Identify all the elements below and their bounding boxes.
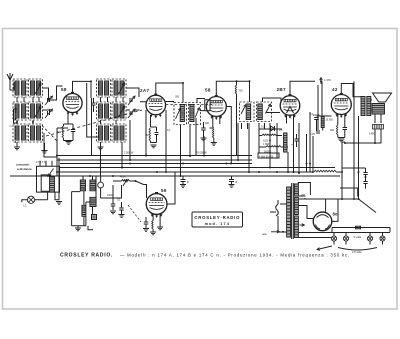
diode detector symbol: [271, 126, 275, 131]
wire RF block output to tube V1 grid: [50, 86, 63, 100]
tube V4 2B7 (detector/AVC/1st AF): [280, 96, 300, 116]
coil L10a: [114, 104, 118, 118]
heater wire rail y232: [298, 232, 390, 234]
grid wire into V5: [317, 115, 332, 117]
coil L12a: [114, 126, 118, 140]
bus wire y155.5: [57, 155, 252, 157]
resistor R6 AVC filter: [266, 146, 281, 148]
svg-text:484: 484: [330, 129, 335, 132]
wire drop x358: [358, 116, 360, 199]
wire x44 RF row3 to bus: [44, 133, 57, 157]
wire antenna lead: [10, 82, 14, 90]
rectifier inner top arc: [317, 215, 329, 218]
trimmer arrow on L10: [119, 106, 125, 117]
wire drop x204: [203, 136, 205, 156]
second gang dashed segment: [42, 126, 57, 142]
wire drop x209 V3 cathode region: [210, 127, 213, 129]
wire screen drop x236.5: [236, 81, 238, 85]
svg-text:2 T 4 T 6: 2 T 4 T 6: [36, 161, 46, 164]
speaker voice coil box hatched: [372, 104, 385, 115]
wire drop x305 from rail y199: [304, 198, 306, 199]
svg-text:4000: 4000: [120, 175, 126, 179]
resistor element in remote box: [50, 177, 55, 192]
coil L10b: [120, 104, 124, 118]
wire drop x86.7 from V1 plate: [87, 83, 98, 137]
dial lamp L1: [27, 196, 34, 203]
RF coil box L2 (dashed): [29, 79, 43, 97]
wire drop x264 IF can stub: [260, 123, 265, 129]
ground mark below remote box: [56, 202, 62, 205]
wire drop x320: [319, 80, 321, 82]
chassis arrow bottom: [317, 246, 332, 250]
mains switch S2: [276, 204, 279, 216]
ganged tuning dashed link: [46, 110, 142, 136]
wire drop x354: [353, 81, 355, 199]
wire lamp stubs from rail: [334, 232, 383, 236]
tuning capacitor C1 (variable): [48, 98, 50, 102]
wire drop x277: [276, 123, 278, 158]
wire drop x270 T2b: [269, 123, 271, 168]
svg-text:0,25: 0,25: [310, 133, 315, 136]
dashed earth lead: [15, 126, 17, 143]
coil L7b: [105, 81, 109, 95]
wire drop x238: [237, 123, 239, 160]
svg-text:2A7: 2A7: [140, 88, 149, 93]
bus wire y176 long: [10, 175, 340, 177]
capacitor C8 detector: [295, 139, 299, 141]
svg-text:600: 600: [205, 122, 210, 125]
junction node under L4: [32, 121, 34, 123]
resistor R7 vertical hatched: [284, 133, 288, 152]
resistor R9 V5 cathode: [336, 125, 337, 135]
wire V1 grid cap loop to oscillator coils: [73, 81, 92, 98]
wire drop x190: [189, 125, 191, 156]
wire T1 to V3 grid: [183, 83, 205, 111]
capacitor C17 between V1 and osc block: [92, 103, 96, 105]
svg-text:25.000: 25.000: [326, 119, 334, 122]
junction dots row on buses: [56, 155, 58, 157]
RF coil box L5 (dashed): [13, 124, 27, 142]
wire V4 legs down: [287, 116, 294, 174]
wire lamp tails: [334, 241, 383, 244]
small resistor box on heater rail: [356, 226, 361, 229]
wire transformer bottom rail: [298, 237, 331, 239]
wire drop x299: [298, 123, 300, 173]
pilot lamp P4: [380, 236, 385, 241]
svg-text:2 500 W: 2 500 W: [124, 152, 134, 155]
grid cap shield of V3: [205, 100, 210, 111]
wire drop x342 from V5 to lamps rail: [342, 142, 345, 199]
svg-text:+: +: [291, 143, 293, 147]
osc coil box L10 (dashed): [112, 102, 126, 120]
wire drop x246 top loop to bus: [246, 100, 248, 102]
wire drop x68 V1 cathode to bus: [57, 127, 68, 129]
wire primary to switch: [278, 204, 287, 232]
wire drops from RF section to buses: [61, 132, 63, 134]
wire osc block to tube V2: [126, 88, 140, 110]
power transformer secondary 2 (HT): [294, 198, 298, 215]
svg-text:1 MW: 1 MW: [263, 143, 270, 146]
pilot lamp P2: [343, 236, 348, 241]
small box element: [92, 215, 97, 220]
coil T2b: [258, 104, 263, 120]
svg-text:5 volts: 5 volts: [354, 235, 362, 239]
wire V6 plate right: [167, 172, 175, 204]
ground under audio coils: [75, 228, 81, 231]
svg-text:1M: 1M: [145, 134, 148, 137]
wire osc coils to ground: [100, 142, 102, 147]
audio coupling coil assembly left of V6: coil A1: [80, 180, 85, 191]
tube V7 80 (rectifier): [313, 212, 332, 231]
ground below RF coils: [14, 147, 20, 150]
node RF output: [49, 109, 51, 111]
wire loop around audio coils: [72, 192, 86, 226]
remote control box: [37, 166, 60, 192]
coil L6a: [31, 126, 35, 140]
junction dots on top rails: [236, 80, 238, 82]
oscillator tuning capacitor C5: [130, 111, 132, 115]
trimmer capacitor arrow on L4: [35, 106, 41, 117]
wire drop x226 V3: [226, 107, 231, 164]
svg-text:260: 260: [301, 194, 306, 197]
wire horizontal y129: [259, 128, 282, 130]
svg-text:1.470: 1.470: [324, 78, 331, 82]
pilot lamp P3: [367, 236, 372, 241]
grid cap marks on tube tops: [71, 92, 74, 94]
tube V5 42 (output): [331, 95, 351, 115]
svg-text:20000: 20000: [313, 114, 320, 117]
wire audio coil stubs to bus: [83, 176, 96, 197]
resistor R3 screen dropper: [235, 85, 236, 94]
svg-text:CROSLEY·RADIO: CROSLEY·RADIO: [194, 215, 240, 220]
resistor R8 grid leak hatched: [321, 117, 324, 128]
coil C vertical: [82, 205, 86, 216]
capacitor C13: [119, 208, 124, 210]
wire remote box bottom drop: [55, 158, 59, 200]
RF coil box L1 (dashed): [13, 79, 27, 97]
ground x160 under V6 leg: [157, 227, 163, 230]
volume potentiometer R11: [122, 180, 130, 182]
capacitor C10 V5 bypass: [343, 128, 348, 130]
wire transformer to speaker: [371, 100, 372, 110]
coil B: [90, 197, 96, 206]
capacitor C11 V6: [144, 222, 149, 224]
power transformer core: [292, 183, 294, 239]
coil L9b: [105, 104, 109, 118]
svg-text:42: 42: [332, 87, 338, 92]
wire V2 plate to T1 can A: [140, 101, 174, 103]
wire drop x313 to resistor R10: [312, 136, 314, 172]
wire coil column joins: [17, 97, 39, 124]
ground arrow x44: [42, 151, 48, 154]
coil T1 primary: [180, 105, 184, 122]
wire V2 cathode legs down: [151, 115, 157, 132]
pilot lamp P1: [331, 236, 336, 241]
field coil hatched: [373, 125, 384, 130]
svg-text:0,1: 0,1: [167, 129, 171, 132]
wire drop x62 V1 bias to bus: [56, 128, 58, 156]
wire drop x209: [209, 115, 211, 117]
wire drop x322: [321, 81, 323, 116]
coil L4a: [31, 104, 35, 118]
svg-text:1400: 1400: [369, 132, 375, 136]
wire horizontal y199 right section: [299, 198, 359, 200]
electrolytic capacitor C14: [181, 180, 186, 182]
heater wire rail y227.5: [332, 228, 390, 233]
wire drop x122 osc block to bus: [121, 142, 123, 168]
antenna: [7, 73, 13, 80]
svg-text:m: m: [10, 125, 12, 128]
wire field coil drops: [375, 114, 381, 123]
junction dots top rails: [165, 155, 167, 157]
capacitor C9 coupling: [314, 118, 319, 120]
wire drop x318 B-plus feed: [317, 85, 319, 130]
wire lamp to box: [35, 192, 48, 200]
wire diagonal to voice coil: [359, 199, 377, 213]
capacitor C19 tone lower: [363, 182, 367, 184]
resistor R2 under V2 1M: [149, 128, 150, 141]
wire drop x146 tube V2 to bus: [145, 110, 147, 155]
arrow into rectifier: [300, 224, 305, 226]
coil L7a: [99, 81, 103, 95]
trimmer arrow T2b: [266, 104, 271, 114]
svg-text:2,5 volts: 2,5 volts: [352, 250, 362, 254]
power transformer secondary 3 (heaters): [294, 216, 298, 238]
tube V2 2A7 (converter): [146, 95, 166, 115]
wire drop x364 output transformer return: [362, 115, 364, 117]
wire rectifier anode from rail: [325, 199, 327, 213]
svg-text:350: 350: [175, 96, 180, 99]
svg-text:700: 700: [239, 90, 244, 93]
wire secondary1 top loop: [298, 183, 310, 196]
wire drop x196 under T1: [195, 118, 197, 156]
wire V5 top loop to output transformer: [341, 84, 361, 97]
label box CROSLEY RADIO mod 174: [192, 212, 243, 227]
mains arrow rete: [271, 231, 280, 233]
capacitor C16 at x318: [316, 131, 320, 133]
junction node under L3: [16, 121, 18, 123]
svg-text:rete: rete: [262, 232, 267, 236]
rectifier filament V right: [325, 225, 330, 230]
wire phono leads: [100, 176, 102, 198]
osc coil box L8 (dashed): [112, 79, 126, 97]
trimmer capacitor arrow on L2: [35, 83, 41, 94]
wire drop x90: [89, 96, 91, 98]
wire drop x166: [165, 110, 167, 172]
coil L5b: [22, 126, 26, 140]
wire tone caps branch: [342, 167, 366, 169]
trimmer arrow T1a: [176, 108, 181, 119]
coil L11b: [105, 126, 109, 140]
coil L8a: [114, 81, 118, 95]
svg-text:— Modelli : n 174 A, 174 B: — Modelli : n 174 A, 174 B e 174 C n. - …: [120, 253, 350, 258]
power transformer primary winding: [287, 187, 291, 237]
coil L3a: [15, 104, 19, 118]
wire V6 grid from pot: [144, 185, 147, 205]
wire V2 bias bottom join: [151, 141, 157, 143]
coil L2a: [31, 81, 35, 95]
osc coil box L11 (dashed): [97, 124, 111, 142]
wire drop x288 to bus: [287, 152, 289, 173]
dashed shield line through IF1: [166, 104, 212, 106]
capacitor C3 cathode bypass: [71, 130, 76, 132]
IF transformer T2 can B (dashed): [257, 102, 272, 122]
curly bracket 2,5 volts: [338, 248, 377, 251]
coil T1 secondary: [190, 105, 194, 122]
wire cathode join to ground: [338, 137, 345, 139]
capacitor C7 V3 bypass: [201, 128, 206, 130]
ground under V2 bias: [151, 145, 157, 148]
coil L6b: [37, 126, 41, 140]
RF coil box L3 (dashed): [13, 102, 27, 120]
wire horizontal y143 field coil return: [345, 142, 375, 144]
oscillator tuning capacitor C4: [130, 98, 132, 102]
IF transformer T1 can A (dashed): [174, 103, 187, 125]
ground under V6: [150, 232, 156, 235]
wire rectifier output up: [332, 199, 338, 221]
coil L1b: [22, 81, 26, 95]
IF transformer T2 can A (dashed): [240, 102, 255, 122]
capacitor C18 tone upper: [363, 173, 367, 175]
earth lead bracket at left edge: [14, 109, 18, 123]
trimmer arrow T2a: [241, 105, 246, 115]
electrolytic capacitor C15: [229, 180, 234, 182]
osc coil box L12 (dashed): [112, 124, 126, 142]
coil L4b: [37, 104, 41, 118]
wire secondary1 bottom: [298, 195, 305, 197]
bus wire y163.5: [60, 163, 252, 165]
tuning capacitor C2 (variable): [48, 111, 50, 115]
bus wire y172: [57, 171, 313, 173]
dashed mechanical link volume: [128, 205, 141, 222]
output transformer T3 primary: [361, 97, 365, 116]
diode plates inside V4: [287, 107, 294, 114]
wire V5 legs: [338, 114, 345, 126]
coil L3b: [22, 104, 26, 118]
wire horizontal y134 speaker return: [345, 134, 381, 143]
wire V4 top loop: [290, 81, 315, 95]
svg-text:4 MW 50 000: 4 MW 50 000: [259, 156, 274, 159]
wire rectifier plate to HT secondary: [298, 206, 313, 219]
wire drop x130: [129, 120, 131, 160]
svg-text:56: 56: [161, 188, 167, 193]
coil L8b: [120, 81, 124, 95]
resistor R1 cathode bias 300: [62, 126, 63, 138]
coil A2: [90, 180, 96, 191]
wire field coil to bus: [375, 129, 381, 143]
inner box in remote control: [41, 175, 51, 191]
trimmer arrow T1b: [195, 108, 199, 118]
wire drop x241 IF can stub: [241, 123, 243, 129]
output transformer T3 secondary: [367, 97, 371, 116]
wire vertical drop x259: [258, 123, 260, 153]
wire drop x180 T1 to bus: [180, 125, 182, 176]
node B+ arrow marker 1.470: [320, 78, 322, 85]
IF transformer T1 can B (dashed): [189, 103, 201, 125]
capacitor C12 grid: [111, 204, 116, 206]
wire speaker link y188: [340, 188, 358, 197]
resistor R10 hum filter in bus: [314, 170, 336, 172]
wire long drop x91 to bus: [91, 98, 93, 156]
svg-text:L1: L1: [24, 204, 28, 208]
wire drop x258 under T2a: [247, 123, 249, 129]
resistor R4 V3 cathode: [212, 127, 213, 138]
wire network box: [258, 153, 279, 158]
power transformer secondary 1 (rectifier filament): [294, 184, 298, 196]
wire left column to ground: [16, 142, 18, 147]
bus junction dots: [129, 159, 131, 161]
resistor R12 V6 cathode: [152, 221, 153, 229]
bus wire y160: [57, 159, 252, 161]
capacitor C6 under V2: [155, 133, 159, 135]
coil L1a: [15, 81, 19, 95]
RF coil box L4 (dashed): [29, 102, 43, 120]
tube V6 56 (1st audio): [146, 194, 167, 215]
svg-text:58: 58: [61, 87, 67, 92]
ground under C14: [180, 185, 186, 188]
wire y196 phono to pot: [101, 185, 122, 198]
wire vertical drop x249: [248, 123, 250, 173]
wire remote box top stubs to bus: [40, 161, 52, 167]
osc coil box L9 (dashed): [97, 102, 111, 120]
svg-text:8o: 8o: [333, 212, 338, 217]
svg-text:25 000 W: 25 000 W: [196, 152, 207, 155]
tube V1 58 (RF amplifier): [63, 93, 82, 112]
tube V3 58 (IF amplifier): [206, 97, 226, 117]
phono jack circle: [98, 182, 104, 188]
wire pot connections: [113, 180, 136, 182]
speaker horn: [373, 93, 392, 102]
rectifier filament V left: [316, 225, 321, 230]
osc coil box L7 (dashed): [97, 79, 111, 97]
coil L2b: [37, 81, 41, 95]
bus wire y167.5: [60, 167, 335, 169]
ground under C15: [229, 185, 235, 188]
wire right of RF block: [43, 88, 49, 110]
svg-text:58: 58: [205, 88, 211, 93]
wire drop x57 from RF cathode area: [56, 140, 58, 176]
wire V2 grid cap loop to IF transformer 1: [156, 83, 183, 95]
coil L12b: [120, 126, 124, 140]
RF coil box L6 (dashed): [29, 124, 43, 142]
ground below osc coils: [98, 147, 104, 150]
wire osc column joins: [101, 97, 124, 124]
wire T2 to V4 grid: [263, 98, 282, 113]
wire V1 cathode down: [64, 113, 74, 124]
coil L9a: [99, 104, 103, 118]
wire V6 cathode down: [153, 215, 160, 227]
wire V3 cathode down: [213, 116, 220, 127]
svg-text:mod. 174: mod. 174: [205, 222, 230, 226]
wire bottom drop of audio assembly: [88, 226, 93, 230]
wire audio coils inner joins: [84, 191, 93, 215]
coil T2a: [246, 104, 251, 120]
wiper arrow in remote box: [48, 169, 54, 177]
wire drop x100 osc left to bus: [100, 148, 102, 177]
switch arm S1: [136, 181, 144, 185]
svg-text:a distanza: a distanza: [17, 167, 32, 171]
resistor R5 diode load: [262, 134, 276, 136]
coil L11a: [99, 126, 103, 140]
wire lamp left lead: [22, 200, 28, 202]
ground under V1 bias: [66, 142, 72, 145]
coil L5a: [15, 126, 19, 140]
wire drop x306-310 vertical pair: [307, 112, 311, 172]
trimmer arrow on L8: [119, 83, 125, 94]
svg-text:CROSLEY RADIO.: CROSLEY RADIO.: [60, 253, 113, 259]
wire bias bottom join: [64, 140, 74, 142]
svg-text:10000: 10000: [107, 194, 114, 197]
